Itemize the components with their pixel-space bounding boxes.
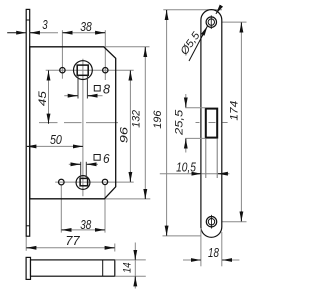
svg-text:3: 3 (42, 17, 48, 32)
top small screw hole right (103, 68, 108, 73)
latch inner edge extensions down (205, 139, 207, 178)
extension line top-left hole up (61, 30, 63, 78)
bottom screw hole outer (206, 217, 216, 227)
svg-text:50: 50 (50, 132, 62, 147)
diameter leader line (189, 31, 205, 61)
bottom screw hole inner (208, 219, 214, 225)
lock body outline (30, 47, 116, 199)
centerline bottom hole row (55, 181, 134, 183)
bottom square side extensions up (80, 162, 82, 179)
faceplate tick bottom (26, 225, 30, 227)
bottom small screw hole right (102, 179, 107, 184)
svg-text:38: 38 (80, 217, 91, 232)
extension line plate top (163, 9, 222, 11)
top square hole 8mm (77, 65, 88, 75)
vertical spindle axis line (82, 59, 84, 197)
dimension 196 (166, 10, 168, 236)
centerline top hole row (46, 69, 134, 71)
dimension 3 (faceplate thickness) (7, 32, 26, 34)
dimension 132 (144, 47, 146, 199)
svg-text:174: 174 (229, 101, 241, 121)
body bottom view (31, 260, 115, 276)
dimension 18 extension lines (200, 228, 202, 266)
dimension 18 (183, 259, 201, 261)
extension line bottom hole center right (174) (205, 221, 247, 223)
extension line bottom-right hole down (104, 185, 106, 233)
dimension 174 (240, 22, 242, 221)
extension line body bottom edge right (105, 198, 150, 200)
faceplate bar (26, 257, 30, 279)
square symbol for 8 (94, 86, 100, 92)
dimension 25,5 extension lines (185, 107, 205, 109)
svg-text:18: 18 (208, 245, 219, 260)
top screw hole outer (206, 17, 216, 27)
bottom spindle hub circle (76, 176, 90, 190)
top square side extensions down (77, 76, 79, 99)
latch centerline dashes (196, 122, 228, 124)
top screw hole inner (208, 19, 214, 25)
dimension 50 (backset) (26, 145, 83, 147)
dimension 25,5 (185, 94, 187, 108)
svg-text:14: 14 (121, 263, 133, 274)
svg-text:77: 77 (65, 233, 80, 248)
extension line bottom-left hole down (60, 186, 62, 233)
faceplate tick top (26, 19, 30, 21)
top screw hole crosshair vertical (210, 15, 212, 29)
extension line 77 right (114, 244, 116, 252)
extension line top hole center right (174) (205, 21, 247, 23)
square symbol for 6 (94, 155, 100, 161)
bottom small screw hole left (59, 179, 65, 185)
extension line body top edge right (104, 46, 150, 48)
body bottom view internal line (102, 260, 104, 276)
dimension 45 (48, 70, 50, 124)
svg-text:45: 45 (37, 90, 49, 106)
dimension 14 (134, 243, 136, 289)
svg-text:132: 132 (131, 109, 143, 127)
dimension 38 bottom (61, 229, 105, 231)
svg-text:8: 8 (103, 82, 111, 97)
bottom screw hole crosshair vertical (211, 215, 213, 229)
dimension 38 top (62, 32, 105, 34)
dimension 6 (square) (69, 163, 80, 165)
leader arrow lower (202, 26, 207, 36)
svg-text:38: 38 (80, 19, 92, 34)
dimension 77 (26, 247, 115, 249)
svg-text:25,5: 25,5 (174, 109, 186, 136)
svg-text:196: 196 (152, 110, 164, 129)
dimension 10,5 (160, 173, 230, 175)
dimension 14 extension lines (115, 259, 146, 261)
extension line top-right hole up (104, 30, 106, 80)
dashed center line (39, 122, 118, 124)
svg-text:6: 6 (103, 151, 110, 166)
extension line plate bottom (196) (163, 235, 201, 237)
bottom square hole 6mm (80, 178, 88, 185)
leader arrow upper (216, 6, 222, 14)
svg-text:10,5: 10,5 (176, 159, 196, 174)
extension line 77 left (25, 237, 27, 251)
dimension 96 (129, 70, 131, 182)
svg-text:96: 96 (118, 126, 130, 143)
faceplate edge view (vertical strip) (26, 9, 30, 236)
top small screw hole left (60, 68, 65, 73)
dimension 8 (square) (64, 95, 78, 97)
top spindle hub circle (74, 61, 93, 80)
face plate outline (201, 10, 222, 238)
latch slot (206, 109, 217, 138)
